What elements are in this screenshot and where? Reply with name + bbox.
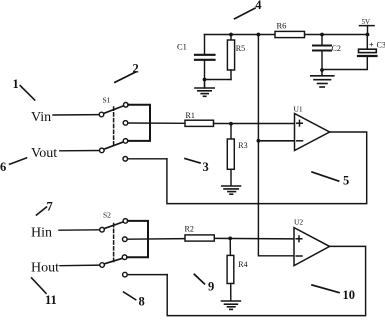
- node Hout terminal: [31, 261, 104, 276]
- svg-text:+: +: [369, 41, 374, 50]
- resistor R6: [275, 21, 305, 38]
- switch S2 throw contact T1: [123, 219, 128, 224]
- wire T4 to feedback: [128, 158, 167, 160]
- svg-text:8: 8: [139, 295, 145, 309]
- node junction R1/R3: [229, 122, 233, 126]
- switch S1 gang link (dashed): [113, 107, 115, 146]
- switch S2 arm (Hout pole): [104, 258, 123, 264]
- label 4 with leader: [235, 0, 263, 19]
- switch S1 arm (Vin pole): [104, 106, 124, 114]
- wire S1 bracket T1-T3: [128, 105, 150, 141]
- switch S2 throw contact T4: [123, 272, 128, 277]
- capacitor C3 (polarized): [358, 35, 385, 57]
- resistor R1: [185, 111, 214, 126]
- node Vout terminal: [31, 146, 104, 161]
- svg-text:R4: R4: [238, 260, 247, 269]
- switch S1 arm (Vout pole): [104, 142, 123, 149]
- label 8 with leader: [124, 292, 145, 309]
- svg-text:2: 2: [133, 62, 139, 76]
- wire C3 bottom to C2 node: [322, 57, 367, 70]
- svg-text:Hout: Hout: [31, 261, 59, 276]
- svg-text:R1: R1: [186, 111, 195, 120]
- wire T2 to R1: [128, 122, 185, 124]
- switch S2 throw contact T3: [122, 255, 127, 260]
- svg-text:5: 5: [343, 174, 349, 188]
- node junction C2/C3 bottom: [320, 68, 324, 72]
- node junction C2 top: [320, 33, 324, 37]
- node junction bias / U1 inverting input: [257, 139, 261, 143]
- svg-text:4: 4: [255, 0, 262, 12]
- svg-text:11: 11: [45, 293, 57, 307]
- svg-text:S2: S2: [103, 211, 111, 220]
- label 9 with leader: [194, 274, 214, 293]
- resistor R5: [227, 35, 245, 80]
- switch S1 throw contact T2: [123, 121, 128, 126]
- capacitor C1: [177, 35, 215, 80]
- wire U1 output feedback loop: [167, 132, 367, 204]
- svg-text:U1: U1: [294, 105, 303, 114]
- resistor R4: [227, 238, 248, 300]
- wire T2' to R2: [127, 238, 185, 241]
- svg-text:Vin: Vin: [31, 110, 51, 125]
- label 11 with leader: [32, 278, 57, 307]
- wire U2 output feedback loop: [167, 246, 365, 315]
- node junction C1/R5 bottom: [203, 78, 207, 82]
- svg-text:C1: C1: [177, 42, 187, 52]
- svg-text:C3: C3: [377, 41, 385, 50]
- ground (under R4): [222, 301, 241, 309]
- ground (under C1): [195, 80, 214, 97]
- node junction R2/R4: [228, 237, 232, 241]
- svg-text:R6: R6: [277, 21, 287, 31]
- resistor R3: [227, 124, 247, 186]
- svg-text:Vout: Vout: [31, 146, 57, 161]
- switch S2 gang link (dashed): [113, 224, 115, 262]
- svg-text:R3: R3: [238, 141, 247, 150]
- switch S1 throw contact T3: [123, 139, 128, 144]
- wire S2 bracket T1-T3: [127, 221, 148, 257]
- ground (under R3): [222, 186, 241, 194]
- switch S1 throw contact T1: [124, 103, 129, 108]
- label 1 with leader: [13, 77, 35, 100]
- power 5V: [360, 18, 375, 35]
- label 7 with leader: [37, 200, 53, 216]
- node junction 5V/C3: [366, 33, 370, 37]
- svg-text:9: 9: [208, 280, 214, 294]
- svg-text:R5: R5: [236, 44, 245, 53]
- wire R2 to U2 + input: [214, 237, 294, 240]
- svg-text:10: 10: [343, 288, 356, 302]
- switch S2 arm (Hin pole): [104, 222, 123, 229]
- svg-text:Hin: Hin: [31, 226, 52, 241]
- svg-text:C2: C2: [332, 44, 341, 53]
- node Hin terminal: [31, 226, 104, 241]
- svg-text:1: 1: [13, 77, 19, 91]
- ground (under C2): [311, 70, 334, 87]
- wire U1 - input: [258, 140, 294, 142]
- svg-text:5V: 5V: [362, 18, 371, 26]
- wire T4' to feedback: [127, 274, 167, 276]
- wire R5 bottom to C1 node: [205, 79, 232, 81]
- wire top rail: [205, 34, 368, 36]
- node junction R5 top: [229, 33, 233, 37]
- op-amp U1: [294, 105, 330, 151]
- label 5 with leader: [312, 172, 349, 187]
- node junction bias line top: [257, 33, 261, 37]
- svg-text:7: 7: [47, 200, 53, 214]
- label 2 with leader: [115, 62, 139, 83]
- svg-text:6: 6: [0, 160, 6, 174]
- wire bias line vertical: [258, 35, 294, 256]
- label 10 with leader: [312, 285, 355, 302]
- switch S1 throw contact T4: [123, 157, 128, 162]
- label 6 with leader: [0, 158, 27, 174]
- svg-text:S1: S1: [103, 96, 111, 105]
- wire R1 to U1 + input: [214, 123, 295, 125]
- switch S2 throw contact T2: [123, 237, 128, 242]
- resistor R2: [185, 225, 215, 242]
- node Vin terminal: [31, 110, 104, 125]
- capacitor C2: [313, 35, 341, 71]
- svg-text:R2: R2: [185, 225, 194, 234]
- svg-text:U2: U2: [294, 218, 303, 227]
- svg-text:3: 3: [203, 160, 209, 174]
- label 3 with leader: [185, 159, 209, 174]
- op-amp U2: [294, 218, 330, 266]
